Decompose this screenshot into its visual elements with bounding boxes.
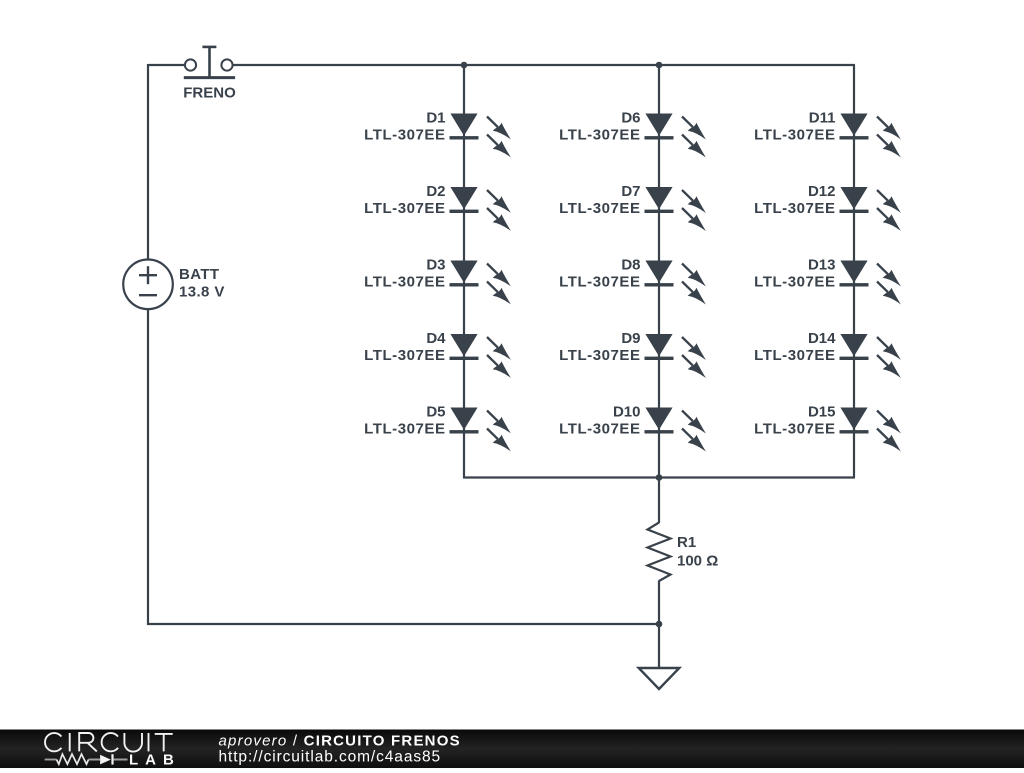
wire: battery bottom to lower-left corner: [147, 309, 149, 625]
wire: resistor bottom lead to ground node: [658, 581, 660, 669]
svg-text:LTL-307EE: LTL-307EE: [364, 347, 445, 364]
node: junction top bus / column 1: [461, 62, 468, 69]
node: junction bottom bus / resistor: [656, 474, 663, 481]
wire: bottom return horizontal: [147, 623, 659, 625]
svg-text:D10: D10: [613, 403, 641, 420]
svg-text:LTL-307EE: LTL-307EE: [754, 127, 835, 144]
svg-text:LTL-307EE: LTL-307EE: [364, 274, 445, 291]
wire: LED column 2 vertical: [658, 65, 660, 478]
svg-text:aprovero / CIRCUITO FRENOS: aprovero / CIRCUITO FRENOS: [219, 732, 461, 749]
LED D9 LTL-307EE: [559, 330, 706, 378]
LED D6 LTL-307EE: [559, 109, 706, 157]
CircuitLab logo: [45, 733, 181, 769]
wire: LED column 1 vertical: [463, 65, 465, 478]
svg-text:LTL-307EE: LTL-307EE: [559, 421, 640, 438]
svg-text:D13: D13: [808, 256, 836, 273]
svg-text:D1: D1: [426, 109, 445, 126]
svg-text:LTL-307EE: LTL-307EE: [364, 421, 445, 438]
svg-text:13.8 V: 13.8 V: [179, 284, 225, 301]
svg-text:D11: D11: [809, 109, 836, 126]
svg-text:LAB: LAB: [129, 752, 181, 768]
svg-text:D7: D7: [621, 183, 640, 200]
svg-text:LTL-307EE: LTL-307EE: [364, 200, 445, 217]
LED D12 LTL-307EE: [754, 183, 901, 231]
svg-text:D5: D5: [426, 403, 445, 420]
svg-text:D12: D12: [808, 183, 836, 200]
svg-text:LTL-307EE: LTL-307EE: [754, 347, 835, 364]
LED D14 LTL-307EE: [754, 330, 901, 378]
LED D10 LTL-307EE: [559, 403, 706, 451]
svg-text:D4: D4: [426, 330, 446, 347]
svg-text:D15: D15: [808, 403, 836, 420]
pushbutton switch FRENO: [183, 47, 236, 101]
svg-text:100 Ω: 100 Ω: [677, 553, 718, 570]
svg-text:LTL-307EE: LTL-307EE: [754, 200, 835, 217]
LED D8 LTL-307EE: [559, 256, 706, 304]
LED D3 LTL-307EE: [364, 256, 511, 304]
LED D15 LTL-307EE: [754, 403, 901, 451]
LED D11 LTL-307EE: [754, 109, 901, 157]
wire: top bus from switch to right column: [233, 64, 855, 66]
svg-text:BATT: BATT: [179, 266, 219, 283]
svg-text:FRENO: FRENO: [183, 84, 236, 101]
svg-text:http://circuitlab.com/c4aas85: http://circuitlab.com/c4aas85: [219, 748, 442, 765]
LED D13 LTL-307EE: [754, 256, 901, 304]
wire: bottom LED bus: [463, 476, 855, 478]
battery BATT 13.8 V (voltage source): [123, 260, 225, 310]
svg-text:LTL-307EE: LTL-307EE: [559, 274, 640, 291]
svg-text:LTL-307EE: LTL-307EE: [559, 200, 640, 217]
LED D7 LTL-307EE: [559, 183, 706, 231]
svg-text:D2: D2: [426, 183, 445, 200]
svg-text:LTL-307EE: LTL-307EE: [559, 127, 640, 144]
footer bar: [0, 730, 1024, 769]
LED D4 LTL-307EE: [364, 330, 511, 378]
node: junction return wire / ground: [656, 621, 663, 628]
svg-text:LTL-307EE: LTL-307EE: [754, 421, 835, 438]
svg-text:LTL-307EE: LTL-307EE: [559, 347, 640, 364]
wire: resistor top lead: [658, 478, 660, 524]
wire: left rail vertical (battery top): [147, 64, 149, 260]
svg-text:D8: D8: [621, 256, 640, 273]
svg-text:LTL-307EE: LTL-307EE: [754, 274, 835, 291]
ground symbol: [639, 668, 680, 689]
svg-text:R1: R1: [677, 534, 696, 551]
LED D2 LTL-307EE: [364, 183, 511, 231]
wire: LED column 3 vertical: [853, 65, 855, 478]
svg-text:D6: D6: [621, 109, 640, 126]
svg-text:D14: D14: [808, 330, 836, 347]
wire: left segment from left rail to switch: [148, 64, 185, 66]
node: junction top bus / column 2: [656, 62, 663, 69]
svg-text:LTL-307EE: LTL-307EE: [364, 127, 445, 144]
LED D1 LTL-307EE: [364, 109, 511, 157]
svg-text:D3: D3: [426, 256, 445, 273]
svg-text:D9: D9: [621, 330, 640, 347]
LED D5 LTL-307EE: [364, 403, 511, 451]
resistor R1 100 Ω: [648, 523, 719, 582]
